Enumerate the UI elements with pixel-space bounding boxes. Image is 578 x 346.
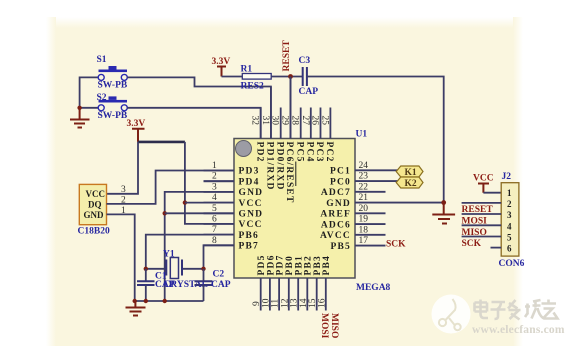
svg-text:SCK: SCK [462, 239, 482, 249]
wire S1 left rail to ground [80, 77, 102, 107]
svg-text:11: 11 [271, 299, 281, 308]
pin 19 ADC6 line [355, 223, 386, 225]
svg-text:6: 6 [507, 244, 512, 254]
port K1 [396, 166, 423, 178]
capacitor C2 [195, 269, 231, 301]
pin 1 PD3 line [204, 170, 235, 172]
svg-text:2: 2 [212, 172, 217, 182]
svg-text:ADC6: ADC6 [321, 220, 351, 230]
svg-text:PC6/RESET: PC6/RESET [284, 142, 294, 204]
pin 7 PB6 line [204, 234, 235, 236]
svg-text:PD2: PD2 [254, 142, 264, 163]
svg-text:SW-PB: SW-PB [98, 111, 128, 121]
svg-text:GND: GND [239, 210, 264, 220]
svg-text:2: 2 [507, 199, 512, 209]
power 3.3V (R1) [212, 57, 231, 77]
wire pin4 VCC [185, 202, 234, 204]
resistor R1 [241, 65, 272, 92]
svg-text:GND: GND [326, 199, 351, 209]
svg-text:RESET: RESET [282, 40, 292, 72]
svg-text:PC2: PC2 [324, 142, 334, 163]
pin 22 ADC7 line [355, 191, 386, 193]
svg-text:C3: C3 [299, 56, 311, 66]
svg-text:5: 5 [507, 232, 512, 242]
svg-text:VCC: VCC [239, 199, 263, 209]
pin 11 PD7 line [278, 278, 280, 311]
pin 25 PC2 line [329, 108, 331, 139]
port K2 [396, 177, 423, 189]
pin 3 GND line [204, 191, 235, 193]
svg-text:VCC: VCC [473, 174, 494, 184]
svg-text:CON6: CON6 [499, 259, 525, 269]
svg-text:RES2: RES2 [241, 82, 264, 92]
capacitor C1 [137, 269, 175, 301]
pin 9 PD5 line [260, 278, 262, 311]
svg-text:3.3V: 3.3V [127, 119, 146, 129]
wire C3 to right vertical [307, 77, 444, 203]
svg-text:23: 23 [359, 172, 369, 182]
svg-text:PC3: PC3 [314, 142, 324, 163]
wire S2 to pin32 [127, 108, 260, 139]
wire 3.3V rail thick [138, 141, 185, 144]
ground (S1/S2) [70, 108, 90, 128]
svg-text:20: 20 [359, 204, 369, 214]
wire 3.3V stem to C18B20 VCC [107, 142, 139, 194]
wire S1 to pin31 [127, 77, 271, 138]
pin 6 VCC line [204, 223, 235, 225]
wire RESET node to pin29 [290, 77, 292, 139]
watermark text 电子发烧友 [475, 300, 558, 320]
svg-text:25: 25 [319, 116, 329, 126]
svg-text:PB5: PB5 [331, 242, 352, 252]
svg-text:ADC7: ADC7 [321, 188, 351, 198]
pin 20 AREF line [355, 212, 386, 214]
wire R1 to C3 [271, 76, 303, 78]
switch S2 [97, 93, 128, 121]
ground rail [135, 300, 204, 302]
junction rail GND [163, 299, 167, 303]
pin 23 PC0 wire to K2 [355, 180, 397, 182]
junction RESET node [288, 74, 293, 79]
power 3.3V (left) [127, 119, 146, 142]
svg-text:C18B20: C18B20 [78, 227, 110, 237]
svg-text:PC4: PC4 [305, 142, 315, 163]
wire pin8 PB7 to crystal [204, 245, 235, 268]
pin 12 PB0 line [288, 278, 290, 311]
pin 1 indicator [236, 141, 252, 157]
wire chip pin2 stub [204, 180, 235, 182]
svg-text:AVCC: AVCC [320, 231, 351, 241]
svg-text:PD7: PD7 [276, 254, 286, 275]
overline RESET [295, 162, 297, 187]
pin 27 PC4 line [310, 108, 312, 139]
svg-text:MOSI: MOSI [319, 313, 329, 339]
wire VCC drop to pins 4,6 [185, 142, 234, 224]
ground (crystal) [126, 301, 146, 316]
svg-text:PD0/RXD: PD0/RXD [274, 142, 284, 191]
wire 3.3V to R1 [222, 76, 243, 78]
svg-text:AREF: AREF [320, 210, 351, 220]
svg-text:28: 28 [290, 116, 300, 126]
pin 16 PB4 MISO line [325, 278, 327, 311]
pin 8 PB7 line [204, 244, 235, 246]
pin 28 PC5 line [300, 108, 302, 139]
svg-text:PD1/RXD: PD1/RXD [265, 142, 275, 191]
svg-text:S1: S1 [97, 55, 107, 65]
wire pin6 stub [491, 247, 502, 249]
ground (AVCC area) [432, 203, 455, 224]
junction S2 rail [77, 106, 81, 110]
svg-text:VCC: VCC [86, 189, 106, 199]
wire pin5 GND [165, 212, 234, 214]
svg-text:4: 4 [212, 193, 217, 203]
svg-text:GND: GND [239, 188, 264, 198]
capacitor C3 [299, 56, 319, 97]
pin 2 PD4 line [204, 180, 235, 182]
pin 26 PC3 line [320, 108, 322, 139]
pin 32 PD2 line [260, 108, 262, 139]
svg-text:3: 3 [212, 182, 217, 192]
svg-text:CAP: CAP [211, 280, 231, 290]
svg-text:PC1: PC1 [330, 167, 351, 177]
svg-text:26: 26 [310, 116, 320, 126]
svg-text:8: 8 [212, 236, 217, 246]
junction pin5 GND [163, 211, 167, 215]
svg-text:1: 1 [507, 188, 512, 198]
svg-text:SW-PB: SW-PB [98, 81, 128, 91]
wire chip GND pins 3,5 [165, 192, 234, 301]
svg-text:www.elecfans.com: www.elecfans.com [472, 324, 565, 336]
svg-text:PD3: PD3 [239, 167, 260, 177]
svg-text:C2: C2 [213, 270, 225, 280]
svg-text:S2: S2 [97, 93, 107, 103]
svg-text:18: 18 [359, 225, 369, 235]
svg-text:31: 31 [260, 116, 270, 126]
svg-text:5: 5 [212, 204, 217, 214]
junction pin4 VCC [183, 200, 187, 204]
wire DQ to pin1 PD3 [107, 171, 235, 204]
junction crystal left [144, 267, 148, 271]
svg-text:29: 29 [280, 116, 290, 126]
power VCC (J2) [473, 174, 494, 193]
svg-text:R1: R1 [241, 65, 253, 75]
svg-text:PC5: PC5 [294, 142, 304, 163]
pin 24 PC1 wire to K1 [355, 169, 397, 171]
svg-text:4: 4 [507, 221, 512, 231]
pin 18 AVCC line [355, 234, 386, 236]
svg-text:16: 16 [317, 298, 327, 308]
svg-text:17: 17 [359, 236, 369, 246]
watermark logo [432, 295, 471, 334]
pin 4 VCC line [204, 202, 235, 204]
junction GND right [441, 200, 446, 205]
svg-text:SCK: SCK [386, 240, 406, 250]
wire C18B20 GND down [107, 214, 135, 301]
svg-text:CAP: CAP [299, 87, 319, 97]
svg-text:3: 3 [507, 210, 512, 220]
svg-text:30: 30 [270, 116, 280, 126]
svg-text:Y1: Y1 [163, 250, 175, 260]
C18B20 sensor [78, 184, 110, 236]
svg-text:32: 32 [250, 116, 260, 126]
svg-text:24: 24 [359, 161, 369, 171]
svg-text:7: 7 [212, 225, 217, 235]
svg-text:1: 1 [212, 161, 217, 171]
pin 29 PC6/RESET line [290, 77, 292, 139]
svg-text:CAP: CAP [155, 280, 175, 290]
wire VCC to J2 pin1 [483, 192, 501, 194]
svg-text:PC0: PC0 [330, 177, 351, 187]
pin 5 GND line [204, 212, 235, 214]
svg-text:PB7: PB7 [239, 242, 260, 252]
crystal Y1 [146, 250, 208, 291]
svg-text:6: 6 [212, 214, 217, 224]
pin 17 PB5 SCK line [355, 245, 386, 247]
svg-text:DQ: DQ [88, 200, 102, 210]
pin 15 PB3 MOSI line [316, 278, 318, 311]
IC U1 MEGA8 [234, 130, 391, 294]
svg-text:PD4: PD4 [239, 177, 260, 187]
svg-text:K2: K2 [405, 179, 417, 189]
pin 10 PD6 line [269, 278, 271, 311]
svg-text:VCC: VCC [239, 220, 263, 230]
svg-text:19: 19 [359, 215, 369, 225]
svg-text:GND: GND [84, 210, 105, 220]
junction rail C1 [144, 299, 148, 303]
pin 21 GND wire to ground [355, 202, 444, 204]
svg-text:PB6: PB6 [239, 231, 260, 241]
pin 31 PD1 line [270, 87, 272, 139]
svg-text:3: 3 [121, 185, 126, 195]
pin 14 PB2 line [306, 278, 308, 311]
svg-text:J2: J2 [502, 172, 512, 182]
connector J2 [499, 172, 525, 269]
wire MOSI stub [462, 213, 502, 215]
svg-text:22: 22 [359, 182, 369, 192]
wire SCK stub [462, 236, 502, 238]
junction rail left [133, 299, 137, 303]
svg-text:MEGA8: MEGA8 [356, 283, 391, 293]
junction crystal right [201, 267, 205, 271]
wire pin7 PB6 to crystal [146, 235, 234, 269]
wire RESET stub [462, 202, 502, 204]
pin 30 PD0 line [280, 108, 282, 139]
svg-text:PB4: PB4 [322, 255, 332, 276]
pin 13 PB1 line [297, 278, 299, 311]
svg-text:21: 21 [359, 193, 369, 203]
wire MISO stub [462, 224, 502, 226]
switch S1 [97, 55, 128, 91]
svg-text:27: 27 [300, 116, 310, 126]
svg-text:MISO: MISO [329, 313, 339, 338]
svg-text:U1: U1 [356, 130, 368, 140]
